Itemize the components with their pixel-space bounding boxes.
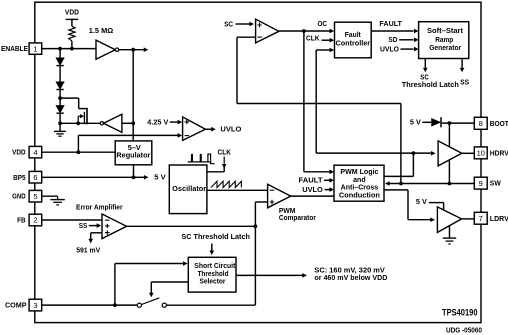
arrow into HDRV driver xyxy=(431,151,436,156)
SC comp + sign xyxy=(257,23,261,27)
arrow UVLO output xyxy=(211,127,216,132)
junction SW / SC sense loop xyxy=(399,182,403,186)
wire SS to error amp xyxy=(89,225,97,227)
wire OC signal down to PWM logic xyxy=(303,31,305,172)
svg-text:5 V: 5 V xyxy=(154,175,166,182)
svg-text:CLK: CLK xyxy=(218,150,232,157)
transistor Q1 (NMOS) xyxy=(86,108,88,125)
svg-text:UVLO: UVLO xyxy=(302,187,323,194)
wire HDRV driver return to SW xyxy=(448,160,450,184)
arrow OC into fault controller xyxy=(330,29,335,34)
UVLO - sign xyxy=(185,135,189,137)
svg-text:BP5: BP5 xyxy=(13,175,26,182)
svg-text:2: 2 xyxy=(33,216,37,225)
junction error amp output / COMP vertical xyxy=(254,224,258,228)
ground symbol (GND pin) xyxy=(57,196,59,199)
svg-text:FAULT: FAULT xyxy=(379,21,402,28)
svg-text:SC: SC xyxy=(224,21,233,28)
svg-text:PWM Logic: PWM Logic xyxy=(340,169,378,176)
wire 5V to boot diode xyxy=(422,121,432,123)
pin 6 BP5 xyxy=(29,171,42,183)
svg-text:Anti–Cross: Anti–Cross xyxy=(341,185,379,192)
wire to diode D1 xyxy=(59,49,61,59)
svg-text:UVLO: UVLO xyxy=(220,126,242,133)
wire enable down to 5-V regulator xyxy=(132,50,134,141)
wire VDD sense up xyxy=(77,135,79,152)
svg-text:4.25 V: 4.25 V xyxy=(147,120,168,127)
wire 4.25V to UVLO + input xyxy=(170,121,178,123)
wire diode to BOOT pin8 xyxy=(442,122,474,124)
junction resistor/ENABLE line xyxy=(70,47,74,51)
svg-text:and: and xyxy=(353,177,366,184)
wire inverter input from enable line xyxy=(122,122,133,124)
wire switch to COMP vertical net xyxy=(167,304,256,306)
pin 3 COMP xyxy=(29,299,42,311)
wire FB pin2 to error amp inverting input xyxy=(42,219,102,221)
wire oscillator ramp to PWM comparator xyxy=(207,189,268,191)
block Fault Controller xyxy=(335,22,372,58)
wire HDRV driver output to pin10 xyxy=(462,152,475,154)
wire LDRV driver to ground xyxy=(449,226,451,238)
buffer LDRV driver xyxy=(437,207,461,233)
error amp + sign (ref) xyxy=(105,230,109,234)
junction enable/inverter input xyxy=(131,121,135,125)
svg-text:Comparator: Comparator xyxy=(279,215,316,222)
svg-text:Ramp: Ramp xyxy=(435,37,453,44)
svg-text:BOOT: BOOT xyxy=(490,121,508,128)
resistor 1.5 Mohm xyxy=(69,26,75,41)
svg-text:Threshold: Threshold xyxy=(198,271,229,278)
arrow 5V out xyxy=(144,175,149,180)
wire SC threshold latch output xyxy=(424,59,426,68)
buffer U-enable (triangle with output bubble) xyxy=(96,40,115,59)
svg-text:TPS40190: TPS40190 xyxy=(442,308,478,319)
CLK net arrow xyxy=(223,157,225,164)
wire selector switch control xyxy=(151,281,188,283)
block 5-V Regulator xyxy=(115,141,152,165)
svg-text:1: 1 xyxy=(33,44,37,53)
wire boot supply into HDRV driver xyxy=(448,123,450,147)
diode D2 xyxy=(56,82,63,89)
wire MOSFET drain lead horizontal xyxy=(60,97,79,99)
svg-text:GND: GND xyxy=(12,194,26,201)
wire ENABLE pin1 to buffer input xyxy=(42,48,96,50)
svg-text:SC: 160 mV, 320 mV: SC: 160 mV, 320 mV xyxy=(314,267,385,274)
buffer HDRV driver xyxy=(438,141,462,166)
arrow into PWM logic top input xyxy=(329,170,334,175)
PWM comp + sign xyxy=(270,200,274,204)
svg-text:SS: SS xyxy=(460,79,469,86)
svg-text:VDD: VDD xyxy=(12,150,26,157)
svg-text:8: 8 xyxy=(479,119,483,128)
junction HDRV line / PWM logic output xyxy=(412,151,416,155)
svg-text:9: 9 xyxy=(479,179,483,188)
wire SC threshold latch into selector xyxy=(211,244,213,251)
op-amp PWM comparator xyxy=(268,184,291,208)
wire COMP up to selector xyxy=(114,264,116,306)
svg-text:Controller: Controller xyxy=(336,41,371,48)
wire BP5 to 5V arrow xyxy=(134,176,145,178)
wire supply bar to resistor xyxy=(71,19,73,26)
svg-text:4: 4 xyxy=(33,148,37,157)
pin 9 SW xyxy=(474,177,487,189)
SC comp - sign xyxy=(258,36,262,38)
wire D2 to D3 xyxy=(59,90,61,106)
ground symbol (diode chain) xyxy=(54,130,66,132)
junction diode chain/ENABLE line xyxy=(58,47,62,51)
clock pulse waveform xyxy=(188,161,212,163)
svg-text:591 mV: 591 mV xyxy=(76,248,100,255)
wire resistor to ENABLE line xyxy=(71,41,73,49)
svg-text:or 460 mV below VDD: or 460 mV below VDD xyxy=(314,275,387,282)
wire SS output xyxy=(461,59,463,68)
block PWM Logic and Anti-Cross Conduction xyxy=(334,165,384,201)
block Oscillator xyxy=(169,165,207,214)
wire 591mV ref input xyxy=(91,232,102,234)
svg-text:6: 6 xyxy=(33,173,37,182)
arrow PWM feedback into fault controller xyxy=(330,48,335,53)
wire UVLO stub xyxy=(401,48,414,50)
wire MOSFET drain lead down xyxy=(78,98,80,109)
arrow enable signal out xyxy=(144,47,149,52)
wire COMP vertical net xyxy=(254,202,256,305)
svg-text:FAULT: FAULT xyxy=(299,178,324,185)
wire SC sense loop down xyxy=(236,37,238,103)
svg-text:UDG -05060: UDG -05060 xyxy=(446,326,482,335)
arrow selector controls switch xyxy=(149,293,154,298)
pin 8 BOOT xyxy=(474,117,487,129)
svg-text:COMP: COMP xyxy=(5,303,27,310)
wire error amp output to COMP net xyxy=(127,225,256,227)
junction regulator output/BP5 xyxy=(132,175,136,179)
wire COMP pin3 to switch xyxy=(42,304,138,306)
svg-text:Soft–Start: Soft–Start xyxy=(427,28,464,35)
svg-text:SC Threshold Latch: SC Threshold Latch xyxy=(181,234,250,241)
wire buffer output xyxy=(119,49,144,51)
svg-text:Selector: Selector xyxy=(200,279,226,286)
pin 2 FB xyxy=(29,214,42,226)
wire PWM feedback up to fault controller xyxy=(315,50,317,153)
wire 5V supply to LDRV driver xyxy=(429,202,444,204)
diode D1 xyxy=(56,58,63,65)
svg-text:Short Circuit: Short Circuit xyxy=(194,263,236,270)
junction boot diode / HDRV supply xyxy=(448,121,452,125)
svg-text:5–V: 5–V xyxy=(128,145,141,152)
wire HDRV control line xyxy=(316,152,431,154)
wire D3 to ground xyxy=(59,113,61,131)
svg-text:Fault: Fault xyxy=(345,32,362,39)
MOSFET body stub xyxy=(77,116,79,123)
wire MOSFET drain to channel xyxy=(79,108,87,110)
wire SC sense loop across xyxy=(237,103,401,105)
inverter output bubble xyxy=(100,122,103,125)
junction diode chain / MOSFET drain xyxy=(58,96,62,100)
wire PWM logic LDRV output xyxy=(384,189,408,191)
pin 1 ENABLE xyxy=(29,43,42,54)
svg-text:SD: SD xyxy=(388,37,397,44)
wire VDD pin4 to 5-V Regulator xyxy=(42,151,116,153)
wire LDRV driver output to pin7 xyxy=(462,218,475,220)
svg-text:Threshold Latch: Threshold Latch xyxy=(402,82,459,89)
wire PWM comparator output to PWM logic xyxy=(291,195,334,197)
wire SC to comparator + xyxy=(236,23,250,25)
svg-text:SW: SW xyxy=(490,181,501,188)
buffer output bubble xyxy=(115,48,118,51)
switch blade xyxy=(142,298,160,305)
ground symbol (LDRV driver) xyxy=(443,237,456,239)
wire PWM comp + input xyxy=(255,201,267,203)
PWM comp - sign xyxy=(270,189,274,191)
svg-text:3: 3 xyxy=(33,301,37,310)
block Short Circuit Threshold Selector xyxy=(188,257,236,292)
pin 7 LDRV xyxy=(474,212,487,224)
svg-text:FB: FB xyxy=(17,218,26,225)
arrow into UVLO - input xyxy=(178,133,183,138)
junction SW / HDRV driver return xyxy=(448,182,452,186)
junction COMP line xyxy=(113,303,117,307)
junction SC comp output xyxy=(302,29,306,33)
svg-text:HDRV: HDRV xyxy=(490,150,508,157)
pin 4 VDD xyxy=(29,146,42,158)
UVLO + sign xyxy=(185,120,189,124)
wire SW pin9 line xyxy=(390,183,475,185)
pin 10 HDRV xyxy=(474,147,487,159)
error amp - sign xyxy=(105,219,109,221)
wire oscillator CLK output xyxy=(207,171,224,173)
diode D3 xyxy=(56,106,63,113)
svg-text:7: 7 xyxy=(479,214,483,223)
op-amp UVLO comparator xyxy=(183,117,206,140)
svg-text:5: 5 xyxy=(33,192,37,201)
error amp + sign (SS) xyxy=(105,224,109,228)
sawtooth ramp waveform xyxy=(211,181,242,187)
wire MOSFET source / gate line xyxy=(60,122,100,124)
svg-text:SS: SS xyxy=(79,223,88,230)
wire GND pin5 to ground xyxy=(42,195,58,197)
wire D1 to D2 xyxy=(59,66,61,82)
wire VDD sense to UVLO comparator xyxy=(78,134,178,136)
wire SC comp - input xyxy=(237,36,256,38)
arrow into LDRV driver xyxy=(430,217,435,222)
svg-text:5 V: 5 V xyxy=(410,119,421,126)
svg-text:ENABLE: ENABLE xyxy=(1,46,28,53)
svg-text:SC: SC xyxy=(420,75,429,82)
wire COMP sense into selector xyxy=(115,263,183,265)
wire FAULT to soft-start xyxy=(371,30,413,32)
arrow to 591 mV ref xyxy=(88,239,93,244)
MOSFET body arrow xyxy=(80,114,84,118)
op-amp SC comparator xyxy=(256,19,279,43)
junction diode chain / MOSFET source xyxy=(58,121,62,125)
VDD supply bar xyxy=(66,18,79,20)
wire PWM logic top output xyxy=(384,175,413,177)
wire SC comp output to fault controller xyxy=(279,30,330,32)
svg-text:5 V: 5 V xyxy=(416,199,427,206)
svg-text:OC: OC xyxy=(317,21,327,28)
op-amp error amplifier xyxy=(102,214,127,239)
svg-text:10: 10 xyxy=(477,149,485,158)
wire selector SC threshold output xyxy=(236,274,303,276)
svg-text:Regulator: Regulator xyxy=(116,153,150,160)
wire CLK stub xyxy=(322,39,330,41)
switch right contact xyxy=(162,303,166,307)
svg-text:VDD: VDD xyxy=(65,10,79,17)
junction VDD line / UVLO sense xyxy=(77,150,81,154)
wire BP5 pin6 line xyxy=(42,176,134,178)
pin 5 GND xyxy=(29,190,42,202)
switch left contact xyxy=(137,303,141,307)
junction buffer output xyxy=(131,48,135,52)
svg-text:UVLO: UVLO xyxy=(380,46,400,53)
svg-text:Oscillator: Oscillator xyxy=(172,186,206,193)
svg-text:LDRV: LDRV xyxy=(490,216,508,223)
wire SD stub xyxy=(399,39,413,41)
svg-text:1.5 MΩ: 1.5 MΩ xyxy=(89,28,114,35)
junction MOSFET source xyxy=(76,121,80,125)
block Soft-Start Ramp Generator xyxy=(419,22,469,59)
svg-text:PWM: PWM xyxy=(279,208,296,215)
svg-text:Error Amplifier: Error Amplifier xyxy=(76,205,123,212)
wire regulator output down to BP5 line xyxy=(133,165,135,178)
diode boot xyxy=(432,119,440,126)
wire UVLO output xyxy=(205,128,211,130)
svg-text:Conduction: Conduction xyxy=(339,193,380,200)
svg-text:Generator: Generator xyxy=(429,45,461,52)
arrow SW into PWM logic xyxy=(385,181,390,186)
wire SC sense loop down to SW xyxy=(400,104,402,184)
svg-text:CLK: CLK xyxy=(306,36,320,43)
